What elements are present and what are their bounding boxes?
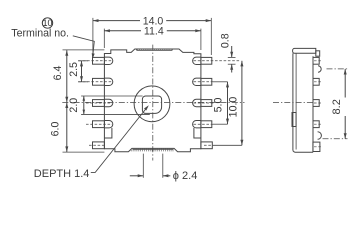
svg-text:11.4: 11.4: [144, 26, 164, 38]
svg-text:DEPTH 1.4: DEPTH 1.4: [34, 168, 90, 180]
svg-text:6.0: 6.0: [50, 122, 62, 137]
svg-text:2.0: 2.0: [68, 98, 80, 113]
svg-text:6.4: 6.4: [52, 66, 64, 81]
svg-text:2.5: 2.5: [68, 62, 80, 77]
svg-text:5.0: 5.0: [213, 98, 225, 113]
svg-text:0.8: 0.8: [220, 33, 232, 48]
svg-text:8.2: 8.2: [331, 99, 343, 114]
svg-text:10.0: 10.0: [228, 97, 240, 118]
svg-text:Terminal no.: Terminal no.: [11, 27, 69, 39]
svg-text:ϕ 2.4: ϕ 2.4: [173, 170, 198, 182]
